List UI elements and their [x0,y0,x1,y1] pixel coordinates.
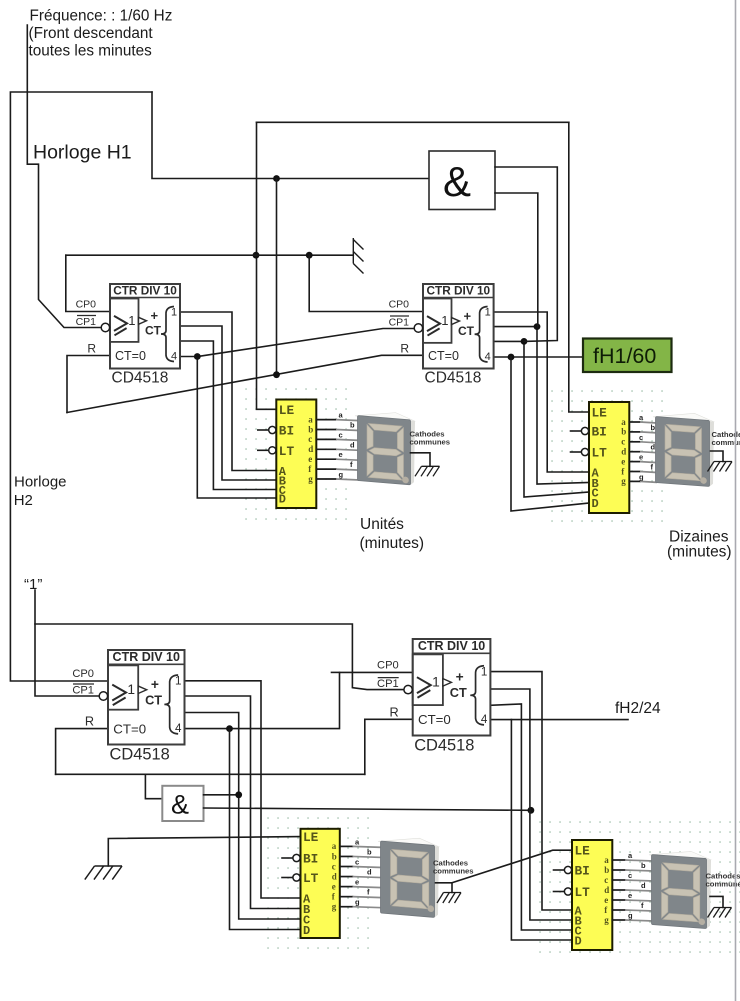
svg-text:CT=0: CT=0 [113,721,146,736]
wire: U3 Q0 to U5 A [185,681,301,898]
junction U1b Q2 [521,338,528,345]
svg-text:c: c [639,433,643,442]
wire [340,845,353,847]
svg-text:a: a [332,841,337,851]
svg-text:fH1/60: fH1/60 [593,344,656,368]
wire: to CP0 of U1b [309,255,423,311]
wire: reset rail to R of U3b [365,719,413,774]
svg-text:c: c [308,434,312,444]
svg-text:b: b [651,423,656,432]
svg-text:1: 1 [128,313,135,328]
svg-text:1: 1 [481,665,487,678]
7-segment display DS1 (cathodes communes) [355,409,415,485]
svg-text:LE: LE [279,403,295,418]
svg-text:b: b [641,861,646,870]
wire [629,421,640,423]
svg-text:c: c [621,437,625,447]
wire [612,879,625,881]
svg-text:(minutes): (minutes) [360,535,425,552]
wire: AND2 output to reset rail [145,774,162,798]
svg-text:1: 1 [171,307,177,319]
ground DS3 [437,893,461,904]
wire: U1 Q0 to U2 A [180,312,276,471]
7-segment display DS3 (cathodes communes) [378,835,439,918]
svg-text:LE: LE [303,830,319,845]
svg-text:c: c [355,858,359,867]
wire: cathode node to U6 LE [452,850,572,883]
decoder U6 (tens hours) (7-seg decoder/driver) [554,840,654,950]
svg-text:g: g [604,915,609,925]
junction U1b Q1 [534,323,541,330]
wire [629,441,640,443]
decoder U5 (units hours) (7-seg decoder/driver) [282,829,382,938]
wire: to CP0 of U1 [66,255,110,311]
counter U1 (minutes units) CD4518 [76,284,180,387]
wire [629,431,640,433]
svg-text:LE: LE [592,406,608,421]
junction LE net [253,252,260,259]
svg-text:e: e [628,891,632,900]
wire [340,886,353,888]
wire [340,866,353,868]
junction G2 input [235,791,242,798]
wire [258,429,269,431]
wire: U1 Q3 to U2 D [180,357,276,499]
svg-text:c: c [604,875,608,885]
svg-text:CD4518: CD4518 [110,745,170,763]
junction G2 input 2 [528,807,535,814]
svg-text:LT: LT [592,446,608,461]
svg-text:d: d [350,440,355,449]
svg-text:b: b [604,865,609,875]
wire: R of U1 down [67,356,110,413]
svg-text:1: 1 [432,675,440,690]
wire [629,461,640,463]
wire: "1" to CP1 of U3b [35,624,403,690]
wire: U1b Q3 to U4 D [511,357,589,511]
svg-text:CTR DIV 10: CTR DIV 10 [427,284,491,298]
svg-text:CTR DIV 10: CTR DIV 10 [113,284,177,298]
wire [282,877,293,879]
svg-text:d: d [308,444,313,454]
wire: G1 input from U1b Q2 [495,167,557,341]
ground DS1 [415,466,440,476]
CP1 inverter bubble [101,323,109,331]
svg-text:g: g [639,472,644,481]
svg-text:d: d [651,443,656,452]
svg-text:e: e [604,895,608,905]
wire tick [332,671,340,673]
decoder U4 (tens minutes) (7-seg decoder/driver) [571,402,658,513]
svg-text:(minutes): (minutes) [667,544,732,561]
wire: U5 LE to ground [108,837,300,866]
svg-text:a: a [621,417,626,427]
counter U3 (hours units) CD4518 [72,650,184,763]
wire: U3b Q0 to U6 A [490,672,572,910]
svg-text:g: g [355,898,360,907]
wire: U1 Q2 to U2 C [180,341,276,490]
svg-text:BI: BI [575,864,590,879]
page edge line (decorative) [735,0,737,1001]
wire: U3b Q1 to U6 B [490,689,572,920]
svg-text:CT=0: CT=0 [418,712,451,727]
svg-text:BI: BI [279,424,294,439]
junction reset net [273,371,280,378]
wire [316,429,336,431]
svg-text:4: 4 [481,713,488,726]
svg-text:c: c [339,430,343,439]
7-segment display DS4 (cathodes communes) [649,848,711,929]
wire [554,891,565,893]
svg-text:CP1: CP1 [377,678,399,690]
svg-text:1: 1 [175,675,181,688]
wire: G1 input from U1b Q1 [495,193,538,327]
ground DS4 [708,908,732,918]
svg-text:1: 1 [441,313,448,328]
svg-text:Fréquence: : 1/60 Hz: Fréquence: : 1/60 Hz [30,8,173,25]
junction U3 Q3 [226,725,233,732]
ground (earth) hours LE [85,866,122,880]
svg-text:BI: BI [303,852,318,867]
svg-text:CT=0: CT=0 [428,349,459,363]
wire: U1b Q2 to U4 C [494,341,589,497]
svg-text:4: 4 [485,351,491,363]
wire [612,869,625,871]
decorative dot grid (not labelled further) [552,391,662,521]
wire [340,855,353,857]
wire: U3 Q3 to CP0 of U3b [185,672,413,728]
wire [629,451,640,453]
wire [571,430,582,432]
svg-text:b: b [308,424,313,434]
wire: left rail to CP0 of U3 [10,92,152,681]
svg-text:Horloge: Horloge [14,474,67,491]
AND gate G1 [429,151,495,210]
wire: U3b Q2 to U6 C [490,704,572,930]
wire: reset drop [276,179,278,375]
svg-text:LT: LT [279,444,295,459]
wire: U1b Q3 to fH1/60 [494,356,583,358]
svg-text:H2: H2 [14,492,33,509]
svg-text:e: e [639,453,643,462]
svg-text:CT: CT [450,685,467,700]
svg-text:d: d [621,447,626,457]
decorative dot grid (not labelled further) [268,818,368,948]
svg-text:g: g [308,474,313,484]
wire: DS4 cathode to ground [710,896,723,907]
svg-text:R: R [390,704,399,719]
svg-text:g: g [339,470,344,479]
svg-text:g: g [628,911,633,920]
wire [316,438,336,440]
svg-text:a: a [604,855,609,865]
wire: R of U3 down [56,729,108,775]
junction U1 Q3 [194,353,201,360]
svg-text:communes: communes [433,866,474,875]
svg-text:LT: LT [303,871,319,886]
AND gate G2 [162,786,203,821]
svg-text:CT: CT [145,692,162,707]
svg-text:d: d [332,871,337,881]
wire: DS3 cathode to ground [436,883,453,893]
svg-text:D: D [279,493,286,507]
svg-text:R: R [87,342,96,356]
wire [316,468,336,470]
svg-text:R: R [400,341,409,355]
svg-text:D: D [303,924,310,938]
wire: reset diagonal to R of U1b [67,355,423,412]
wire [571,451,582,453]
ground DS2 [708,462,733,472]
svg-text:b: b [621,427,626,437]
svg-text:&: & [171,790,189,820]
wire: DS2 cathode to ground [711,451,724,462]
wire [340,906,353,908]
svg-text:d: d [367,868,372,877]
svg-text:CP1: CP1 [389,317,410,329]
svg-text:CP0: CP0 [377,659,399,671]
svg-text:c: c [628,871,632,880]
svg-text:CP0: CP0 [389,299,410,311]
wire: "1" to CP1 of U3 [35,590,99,696]
wire: AND1 output to left rail [152,92,429,179]
svg-text:b: b [332,851,337,861]
svg-text:communes: communes [410,437,451,446]
counter U1b (minutes tens) CD4518 [389,284,494,387]
svg-text:(Front descendant: (Front descendant [29,25,154,42]
svg-text:b: b [367,847,372,856]
wire: Q3 of U1 to CP1 of U1b [197,329,415,357]
svg-text:&: & [443,158,471,205]
CP1 inverter bubble [404,685,412,693]
svg-text:LE: LE [575,844,591,859]
wire [316,478,336,480]
svg-text:b: b [350,421,355,430]
svg-text:c: c [332,861,336,871]
wire: U1b Q0 to U4 A [494,312,589,472]
svg-text:Horloge H1: Horloge H1 [33,142,132,164]
wire: G2 input from U3 Q2 [204,794,239,796]
node fH1/60 output flag [583,339,672,373]
svg-text:1: 1 [485,307,491,319]
svg-text:g: g [332,902,337,912]
wire [612,919,625,921]
svg-text:e: e [332,881,336,891]
junction CP0 net [306,252,313,259]
wire [612,859,625,861]
svg-text:CT: CT [458,324,475,338]
wire: LE to decoder U4 [569,122,589,412]
wire: U3b Q3 to U6 D [511,720,572,940]
svg-text:g: g [621,476,626,486]
wire: reset rail hours [56,773,365,775]
CP1 inverter bubble [99,692,107,700]
wire [282,857,293,859]
svg-text:D: D [575,935,582,949]
wire: U1b Q1 to U4 B [494,327,589,484]
svg-text:4: 4 [175,722,182,735]
wire [316,458,336,460]
counter U3b (hours tens) CD4518 [377,639,490,754]
svg-text:CP1: CP1 [72,685,94,697]
svg-text:CD4518: CD4518 [425,370,482,387]
wire: U1 Q1 to U2 B [180,326,276,480]
svg-text:+: + [151,677,159,692]
ground (chassis) top [353,238,363,274]
wire [629,471,640,473]
svg-text:CD4518: CD4518 [112,370,169,387]
svg-text:CD4518: CD4518 [414,736,474,754]
wire [612,889,625,891]
wire: U3 Q2 to U5 C [185,713,301,920]
wire [629,480,640,482]
wire: DS1 cathode to ground [411,453,431,467]
wire [316,419,336,421]
svg-text:e: e [339,450,343,459]
7-segment display DS2 (cathodes communes) [653,410,714,486]
wire: LE net top [257,121,569,123]
junction on AND1 output net [273,175,280,182]
svg-text:D: D [592,497,599,511]
decorative dot grid (not labelled further) [246,389,346,519]
svg-text:CP0: CP0 [72,668,94,680]
decorative dot grid (not labelled further) [540,822,740,952]
wire: U3 Q3 to U5 D [230,729,301,930]
wire: CP0 distribution [66,254,354,256]
wire: U3b Q3 out fH2/24 [490,719,628,721]
wire [258,449,269,451]
svg-text:CT=0: CT=0 [115,349,146,363]
svg-text:CTR DIV 10: CTR DIV 10 [113,650,180,664]
svg-text:CT: CT [145,324,162,338]
svg-text:e: e [621,456,625,466]
svg-text:4: 4 [171,351,177,363]
wire [340,876,353,878]
decoder U2 (units minutes) (7-seg decoder/driver) [258,400,360,509]
wire [316,448,336,450]
svg-text:+: + [151,308,159,323]
svg-text:R: R [85,714,94,729]
wire: LE to decoder U2 [257,122,277,409]
wire [554,869,565,871]
wire [612,909,625,911]
wire [612,899,625,901]
svg-text:+: + [464,308,472,323]
svg-text:CP0: CP0 [76,299,97,311]
wire: G2 input from U3b Q1 [204,808,531,810]
wire: H1 clock to CP1 of U1 [27,25,101,328]
svg-text:e: e [355,878,359,887]
svg-text:e: e [308,454,312,464]
svg-text:d: d [604,885,609,895]
svg-text:toutes les minutes: toutes les minutes [29,43,153,60]
svg-text:LT: LT [575,885,591,900]
junction U1b Q3 [508,354,515,361]
svg-text:“1”: “1” [24,576,42,593]
svg-text:1: 1 [127,682,135,697]
svg-text:a: a [308,414,313,424]
svg-text:+: + [456,670,464,685]
svg-text:CP1: CP1 [76,316,97,328]
CP1 inverter bubble [414,324,422,332]
wire: U3 Q1 to U5 B [185,696,301,909]
svg-text:Unités: Unités [360,516,404,533]
wire [340,896,353,898]
svg-text:fH2/24: fH2/24 [615,700,661,717]
svg-text:d: d [641,881,646,890]
svg-text:CTR DIV 10: CTR DIV 10 [418,639,485,653]
svg-text:BI: BI [592,425,607,440]
